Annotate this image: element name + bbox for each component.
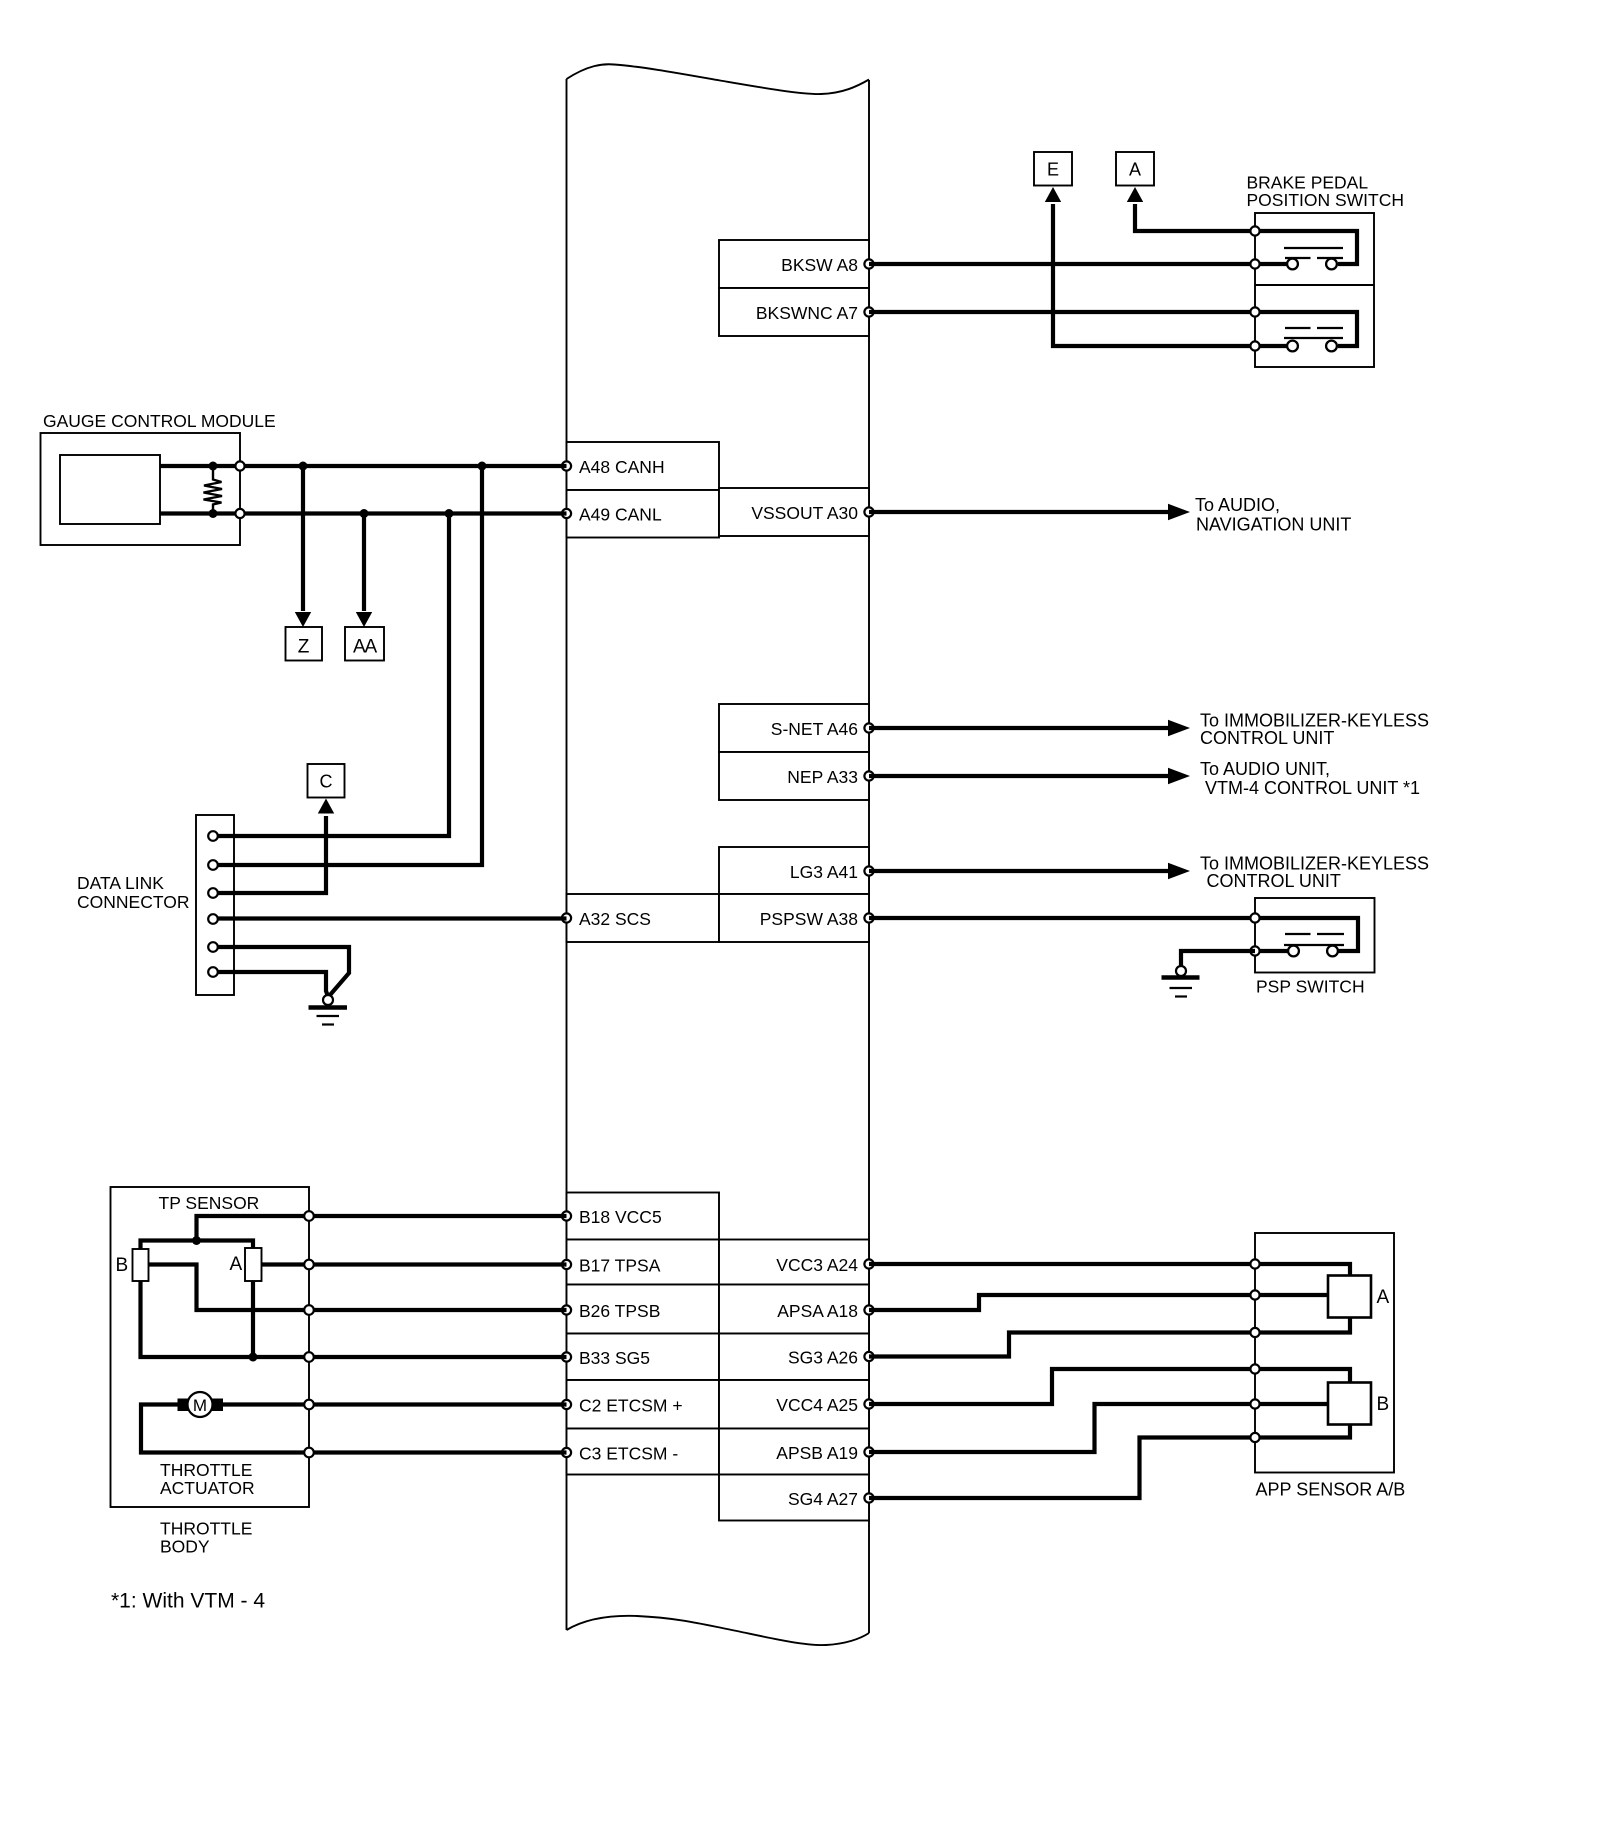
wire pin LG3 A41 output arrow xyxy=(869,863,1190,879)
svg-text:VCC3 A24: VCC3 A24 xyxy=(776,1255,858,1275)
ECM/PCM column right edge (wire) xyxy=(868,80,870,1633)
wire motor to pin C3 ETCSM - xyxy=(141,1405,567,1453)
APP sensor pin circle 1 xyxy=(1250,1259,1259,1268)
junction dot CANH / DLC branch xyxy=(478,462,487,471)
wire to connector Z with arrow xyxy=(295,466,311,627)
PSP switch contact circles xyxy=(1288,946,1338,957)
ECM/PCM column left edge (wire) xyxy=(566,79,568,1630)
wire pin B18 VCC5 to TP sensor xyxy=(197,1216,567,1241)
ground G401 (PSP switch) xyxy=(1162,966,1200,997)
data link connector label xyxy=(77,873,189,912)
ECM pin box C3 ETCSM - (pin C3) xyxy=(562,1429,719,1475)
APP sensor element B box xyxy=(1328,1383,1389,1425)
svg-text:VTM-4 CONTROL UNIT *1: VTM-4 CONTROL UNIT *1 xyxy=(1205,778,1420,798)
svg-text:CONNECTOR: CONNECTOR xyxy=(77,892,189,912)
brake switch 1 contact bars xyxy=(1284,248,1343,258)
wire pin NEP A33 output arrow xyxy=(869,768,1190,784)
svg-text:LG3 A41: LG3 A41 xyxy=(790,862,858,882)
svg-text:A: A xyxy=(230,1254,243,1275)
svg-text:To AUDIO,: To AUDIO, xyxy=(1195,495,1280,515)
ECM pin box PSPSW A38 (pin A38) xyxy=(719,894,874,942)
wire pin BKSWNC A7 to brake switch xyxy=(869,310,1251,314)
DLC pin 5 terminal circle xyxy=(208,942,218,952)
throttle actuator label xyxy=(160,1460,255,1498)
svg-text:C: C xyxy=(320,772,333,792)
resistor (CAN termination) inside gauge module xyxy=(204,462,223,519)
throttle body terminal circle 1 xyxy=(304,1211,314,1221)
svg-text:B33 SG5: B33 SG5 xyxy=(579,1348,650,1368)
svg-text:A32 SCS: A32 SCS xyxy=(579,909,651,929)
wire pin PSPSW A38 to PSP switch xyxy=(869,916,1251,920)
svg-text:APP SENSOR A/B: APP SENSOR A/B xyxy=(1256,1480,1406,1500)
svg-text:To AUDIO UNIT,: To AUDIO UNIT, xyxy=(1200,759,1330,779)
APP sensor label xyxy=(1256,1480,1406,1500)
wire DLC pin2 to CANH xyxy=(216,466,482,865)
brake pedal position switch box xyxy=(1255,213,1374,367)
DLC pin 4 terminal circle xyxy=(208,914,218,924)
svg-text:M: M xyxy=(193,1396,207,1415)
svg-text:A: A xyxy=(1129,159,1141,179)
ECM pin box B17 TPSA (pin B17) xyxy=(562,1240,719,1285)
connector C box xyxy=(308,764,345,798)
wire pin VSSOUT A30 output arrow xyxy=(869,504,1190,520)
TP sensor label xyxy=(159,1193,260,1213)
PSP switch wiring xyxy=(1255,918,1358,951)
brake switch 1 contact circles xyxy=(1287,259,1337,270)
APP sensor pin circle 3 xyxy=(1250,1328,1259,1337)
wire connector A arrow xyxy=(1127,187,1251,231)
potentiometer A (TP sensor) xyxy=(230,1248,262,1281)
label to immobilizer-keyless control unit (LG3) xyxy=(1200,854,1429,892)
ECM pin box LG3 A41 (pin A41) xyxy=(719,847,874,894)
svg-text:B: B xyxy=(116,1255,129,1276)
throttle body terminal circle 3 xyxy=(304,1305,314,1315)
svg-text:THROTTLE: THROTTLE xyxy=(160,1460,252,1480)
svg-text:C3 ETCSM -: C3 ETCSM - xyxy=(579,1444,678,1464)
svg-text:AA: AA xyxy=(353,637,377,658)
wire pin VCC4 A25 to APP sensor B xyxy=(869,1369,1350,1404)
junction dot CANL / AA branch xyxy=(360,509,369,518)
svg-text:PSPSW A38: PSPSW A38 xyxy=(760,909,858,929)
brake switch 1 pin circles xyxy=(1250,226,1259,268)
throttle body terminal circle 2 xyxy=(304,1260,314,1270)
connector E box xyxy=(1034,152,1072,186)
ECM pin box APSA A18 (pin A18) xyxy=(719,1285,874,1334)
junction dot CANH / Z branch xyxy=(299,462,308,471)
svg-text:S-NET A46: S-NET A46 xyxy=(771,719,858,739)
DLC pin 3 terminal circle xyxy=(208,888,218,898)
brake switch 2 contact circles xyxy=(1287,341,1337,352)
wire pin VCC3 A24 to APP sensor A xyxy=(869,1264,1350,1276)
connector Z box xyxy=(286,627,323,661)
brake switch 2 contact bars xyxy=(1284,328,1343,338)
DLC pin 2 terminal circle xyxy=(208,860,218,870)
APP sensor pin circle 2 xyxy=(1250,1290,1259,1299)
PSP switch label xyxy=(1256,977,1365,997)
APP sensor pin circle 6 xyxy=(1250,1433,1259,1442)
gauge control module label xyxy=(43,411,276,431)
svg-text:*1: With VTM - 4: *1: With VTM - 4 xyxy=(111,1590,265,1613)
APP sensor box xyxy=(1255,1233,1394,1473)
ECM pin box SG3 A26 (pin A26) xyxy=(719,1334,874,1381)
svg-text:APSA A18: APSA A18 xyxy=(777,1301,858,1321)
throttle body terminal circle 6 xyxy=(304,1448,314,1458)
wire DLC pin5 to ground xyxy=(216,947,349,995)
svg-text:ACTUATOR: ACTUATOR xyxy=(160,1478,255,1498)
svg-text:SG4 A27: SG4 A27 xyxy=(788,1489,858,1509)
wire pin B17 TPSA to potentiometer A xyxy=(262,1262,567,1266)
ECM pin box VCC4 A25 (pin A25) xyxy=(719,1380,874,1429)
wire DLC pin4 to pin A32 SCS xyxy=(216,916,567,920)
throttle body terminal circle 4 xyxy=(304,1352,314,1362)
svg-text:PSP SWITCH: PSP SWITCH xyxy=(1256,977,1365,997)
throttle body box xyxy=(111,1187,310,1507)
ECM pin box BKSW A8 (pin A8) xyxy=(719,240,874,288)
ground G101 (DLC) xyxy=(309,995,348,1025)
ECM pin box A32 SCS (pin A32) xyxy=(562,894,719,942)
PSP switch contact bars xyxy=(1284,934,1344,945)
wire pin BKSW A8 to brake switch xyxy=(869,262,1251,266)
svg-text:SG3 A26: SG3 A26 xyxy=(788,1348,858,1368)
wire pin B33 SG5 to potentiometers xyxy=(141,1281,567,1362)
svg-text:BKSWNC A7: BKSWNC A7 xyxy=(756,303,858,323)
PSP switch pin circles xyxy=(1250,913,1259,955)
label to audio navigation unit xyxy=(1195,495,1351,535)
footnote *1 with VTM-4 xyxy=(111,1590,265,1613)
gauge control module outer box xyxy=(41,433,241,545)
wire pin SG4 A27 to APP sensor B xyxy=(869,1425,1350,1499)
wire pin S-NET A46 output arrow xyxy=(869,720,1190,736)
brake switch 2 pin circles xyxy=(1250,307,1259,350)
wire to connector AA with arrow xyxy=(356,514,372,628)
ECM pin box VSSOUT A30 (pin A30) xyxy=(719,488,874,536)
data link connector box xyxy=(196,815,234,995)
svg-text:VCC4 A25: VCC4 A25 xyxy=(776,1395,858,1415)
svg-text:DATA LINK: DATA LINK xyxy=(77,873,164,893)
svg-text:B: B xyxy=(1377,1394,1390,1415)
DLC pin 1 terminal circle xyxy=(208,831,218,841)
gauge control module inner unit box xyxy=(60,455,160,524)
svg-text:POSITION SWITCH: POSITION SWITCH xyxy=(1247,190,1405,210)
svg-text:GAUGE CONTROL MODULE: GAUGE CONTROL MODULE xyxy=(43,411,276,431)
wire PSP switch to ground xyxy=(1181,951,1255,966)
wire pin APSB A19 to APP sensor B xyxy=(869,1404,1328,1452)
svg-text:B26 TPSB: B26 TPSB xyxy=(579,1301,660,1321)
ECM pin box VCC3 A24 (pin A24) xyxy=(719,1240,874,1285)
svg-text:B18 VCC5: B18 VCC5 xyxy=(579,1207,662,1227)
svg-text:THROTTLE: THROTTLE xyxy=(160,1519,252,1539)
svg-text:BKSW A8: BKSW A8 xyxy=(781,255,858,275)
wire DLC pin1 to CANL xyxy=(216,514,449,837)
brake switch 1 (normally open) wiring xyxy=(1255,231,1357,264)
wire CANH from gauge module to pin A48 xyxy=(160,461,567,470)
PSP switch box xyxy=(1255,898,1375,973)
brake switch 2 (normally closed) wiring xyxy=(1255,312,1357,346)
ECM pin box NEP A33 (pin A33) xyxy=(719,752,874,800)
svg-text:BODY: BODY xyxy=(160,1537,210,1557)
svg-text:A48 CANH: A48 CANH xyxy=(579,457,665,477)
svg-text:B17 TPSA: B17 TPSA xyxy=(579,1256,661,1276)
svg-text:Z: Z xyxy=(298,637,310,658)
ECM pin box B18 VCC5 (pin B18) xyxy=(562,1193,719,1240)
APP sensor pin circle 4 xyxy=(1250,1364,1259,1373)
svg-text:CONTROL UNIT: CONTROL UNIT xyxy=(1207,871,1341,891)
ECM/PCM column torn top edge xyxy=(567,64,870,94)
connector AA box xyxy=(345,627,384,661)
ECM pin box APSB A19 (pin A19) xyxy=(719,1429,874,1475)
DLC pin 6 terminal circle xyxy=(208,967,218,977)
ECM/PCM column torn bottom edge xyxy=(567,1616,870,1645)
svg-text:A49 CANL: A49 CANL xyxy=(579,505,662,525)
ECM pin box S-NET A46 (pin A46) xyxy=(719,704,874,752)
wire pin B26 TPSB to potentiometer B xyxy=(149,1265,567,1311)
svg-text:APSB A19: APSB A19 xyxy=(776,1443,858,1463)
wire pin APSA A18 to APP sensor A xyxy=(869,1295,1328,1310)
wire pin SG3 A26 to APP sensor A xyxy=(869,1318,1350,1357)
ECM pin box BKSWNC A7 (pin A7) xyxy=(719,288,874,336)
svg-text:A: A xyxy=(1377,1287,1390,1308)
wire DLC pin3 to connector C xyxy=(216,799,334,894)
throttle body terminal circle 5 xyxy=(304,1400,314,1410)
ECM pin box B26 TPSB (pin B26) xyxy=(562,1285,719,1334)
potentiometer B (TP sensor) xyxy=(116,1249,149,1281)
junction dot CANL / DLC branch xyxy=(445,509,454,518)
throttle body label xyxy=(160,1519,252,1557)
wire connector E arrow xyxy=(1045,187,1251,346)
label to audio unit vtm-4 control unit xyxy=(1200,759,1420,798)
brake pedal position switch label xyxy=(1247,173,1405,210)
APP sensor element A box xyxy=(1328,1276,1390,1318)
ECM pin box A49 CANL (pin A49) xyxy=(562,490,719,538)
svg-text:E: E xyxy=(1047,159,1059,179)
svg-text:VSSOUT A30: VSSOUT A30 xyxy=(751,503,858,523)
TP sensor supply bar xyxy=(141,1236,254,1249)
ECM pin box SG4 A27 (pin A27) xyxy=(719,1475,874,1521)
wire DLC pin6 to ground xyxy=(216,972,328,995)
connector A box xyxy=(1116,152,1154,186)
svg-text:NEP A33: NEP A33 xyxy=(787,767,858,787)
throttle actuator motor M xyxy=(178,1392,567,1417)
svg-text:C2 ETCSM +: C2 ETCSM + xyxy=(579,1396,683,1416)
wire CANL from gauge module to pin A49 xyxy=(160,509,567,518)
svg-text:NAVIGATION UNIT: NAVIGATION UNIT xyxy=(1196,515,1351,535)
ECM pin box B33 SG5 (pin B33) xyxy=(562,1334,719,1381)
ECM pin box C2 ETCSM + (pin C2) xyxy=(562,1380,719,1429)
svg-text:CONTROL UNIT: CONTROL UNIT xyxy=(1200,728,1334,748)
label to immobilizer-keyless control unit (S-NET) xyxy=(1200,711,1429,749)
APP sensor pin circle 5 xyxy=(1250,1399,1259,1408)
ECM pin box A48 CANH (pin A48) xyxy=(562,442,719,490)
svg-text:TP SENSOR: TP SENSOR xyxy=(159,1193,260,1213)
